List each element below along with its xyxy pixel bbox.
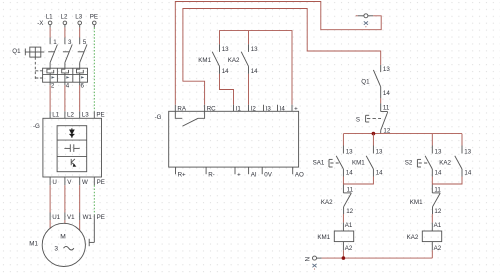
- relay contact RA-RC inside -G: [175, 111, 204, 126]
- -G pin R-: [206, 167, 215, 178]
- svg-text:R+: R+: [178, 171, 186, 178]
- wire supply to RA: [175, 2, 381, 105]
- svg-text:6: 6: [81, 83, 85, 90]
- -G pin I1: [234, 105, 242, 113]
- svg-text:Q1: Q1: [12, 48, 21, 55]
- svg-text:3: 3: [54, 246, 58, 253]
- wire N rail: [322, 257, 433, 259]
- wire 6 to -G L3: [79, 85, 81, 111]
- -G pin L2: [65, 111, 75, 118]
- wire rail to KM1 contact: [372, 134, 374, 146]
- contact KA2 13-14 aux: [228, 44, 258, 75]
- terminal -X2:N: [305, 256, 322, 261]
- wire L1 to breaker: [49, 28, 51, 38]
- motor pin W1: [80, 213, 93, 222]
- svg-text:W1: W1: [83, 214, 93, 221]
- svg-text:SA1: SA1: [313, 160, 325, 167]
- wire U to motor: [49, 185, 51, 212]
- svg-text:KM1: KM1: [410, 199, 423, 206]
- svg-text:AO: AO: [295, 171, 304, 178]
- -G pin I4: [278, 105, 286, 113]
- wire KA2 aux to I2: [248, 74, 250, 105]
- wire V1 into motor: [64, 220, 66, 224]
- svg-text:12: 12: [434, 208, 441, 215]
- svg-text:R-: R-: [208, 171, 215, 178]
- svg-text:KA2: KA2: [439, 160, 451, 167]
- svg-text:-G: -G: [33, 123, 40, 130]
- svg-text:W: W: [82, 179, 88, 186]
- -G pin plus top: [292, 105, 298, 113]
- svg-text:13: 13: [346, 148, 353, 155]
- svg-text:13: 13: [376, 148, 383, 155]
- svg-text:KA2: KA2: [228, 57, 240, 64]
- svg-text:12: 12: [346, 208, 353, 215]
- actuator E of S: [366, 115, 381, 122]
- bypass contact symbol: [64, 144, 79, 152]
- wire KA2 to coil KM1: [342, 214, 344, 223]
- coil KM1 A1-A2: [317, 222, 353, 252]
- svg-text:L3: L3: [82, 111, 89, 118]
- wire W1 into motor: [79, 220, 81, 231]
- svg-text:4: 4: [66, 83, 70, 90]
- wire coil KM1 to N rail: [342, 250, 344, 258]
- svg-text:Q1: Q1: [361, 79, 370, 86]
- svg-text:N: N: [305, 257, 312, 261]
- contact KM1 11-12 interlock: [410, 185, 442, 215]
- svg-text:U: U: [52, 179, 56, 186]
- svg-text:PE: PE: [97, 214, 105, 221]
- svg-text:L2: L2: [67, 111, 74, 118]
- motor pin V1: [65, 213, 75, 222]
- svg-text:14: 14: [251, 68, 258, 75]
- magnetic element pole 2: [65, 75, 70, 83]
- -G pin I3: [264, 105, 272, 113]
- wire RC to Q1: [183, 9, 381, 105]
- breaker output pins 2 4 6: [50, 82, 84, 89]
- svg-text:RC: RC: [207, 105, 216, 112]
- -G pin L3: [80, 111, 90, 118]
- svg-text:KA2: KA2: [321, 199, 333, 206]
- breaker Q1 handle: [12, 47, 44, 57]
- wire PE green lower: [93, 185, 95, 214]
- wire KM1 to coil KA2: [431, 214, 433, 223]
- breaker Q1 pole 2: [65, 38, 72, 69]
- svg-text:I4: I4: [280, 105, 286, 112]
- magnetic element pole 1: [50, 75, 55, 83]
- svg-text:L2: L2: [61, 14, 68, 21]
- -G pin U: [50, 177, 57, 186]
- svg-text:13: 13: [464, 148, 471, 155]
- thyristor symbol: [69, 128, 74, 138]
- wire Q1 to S: [380, 98, 382, 103]
- breaker Q1 pole 1: [50, 38, 57, 69]
- pushbutton S2 13-14: [405, 146, 442, 177]
- semiconductor control symbol K: [71, 159, 76, 167]
- svg-text:14: 14: [435, 169, 442, 176]
- svg-text:PE: PE: [96, 111, 104, 118]
- breaker Q1 trip block: [43, 68, 88, 82]
- pushbutton SA1 13-14: [313, 146, 354, 177]
- svg-text:KA2: KA2: [407, 234, 419, 241]
- terminal -X:L1: [46, 14, 53, 28]
- svg-text:11: 11: [347, 186, 354, 193]
- soft starter -G power box: [33, 118, 102, 177]
- -G pin RA: [175, 105, 187, 113]
- junction rail KM1 branch: [372, 132, 376, 136]
- motor pin U1: [50, 213, 61, 222]
- wire rail to SA1: [342, 134, 344, 146]
- svg-text:KM1: KM1: [317, 234, 330, 241]
- terminal cross mark bottom: [312, 264, 316, 270]
- svg-text:11: 11: [434, 186, 441, 193]
- wire U1 into motor: [49, 220, 51, 229]
- wire SA1 KM1 join: [343, 177, 373, 185]
- svg-text:13: 13: [435, 148, 442, 155]
- -G pin RC: [205, 105, 217, 113]
- svg-text:M: M: [60, 234, 65, 241]
- breaker Q1 pole 3: [80, 38, 87, 69]
- -G pin 0V: [262, 167, 273, 178]
- wire 24V rail: [220, 31, 293, 105]
- -G pin AO: [293, 167, 304, 178]
- wire 2 to -G L1: [49, 85, 51, 111]
- terminal -X:L2: [61, 14, 68, 28]
- soft starter -G control box: [155, 111, 299, 167]
- -G pin PE top: [94, 111, 104, 118]
- terminal cross mark top: [364, 21, 368, 27]
- wire control rail: [344, 133, 463, 135]
- wire W to motor: [79, 185, 81, 212]
- thermal element pole 1: [47, 68, 54, 74]
- svg-text:A1: A1: [434, 222, 442, 229]
- svg-text:14: 14: [346, 169, 353, 176]
- -G pin PE bottom: [94, 177, 105, 186]
- terminal -X2:1 supply: [356, 14, 373, 18]
- svg-text:14: 14: [464, 169, 471, 176]
- svg-text:U1: U1: [52, 214, 60, 221]
- wire L3 to breaker: [79, 28, 81, 38]
- svg-text:L3: L3: [75, 14, 82, 21]
- svg-text:I3: I3: [266, 105, 272, 112]
- svg-text:L1: L1: [46, 14, 53, 21]
- svg-text:AI: AI: [251, 171, 257, 178]
- contact Q1 13-14 aux: [361, 65, 390, 99]
- svg-text:KM1: KM1: [198, 57, 211, 64]
- svg-text:RA: RA: [177, 105, 186, 112]
- svg-text:-G: -G: [155, 114, 162, 121]
- svg-text:5: 5: [83, 39, 87, 46]
- svg-text:PE: PE: [97, 179, 105, 186]
- svg-text:13: 13: [383, 66, 390, 73]
- svg-text:I1: I1: [236, 105, 242, 112]
- wire S2 KA2 join: [432, 177, 462, 185]
- contact KM1 13-14 aux: [198, 44, 229, 75]
- -G pin W: [80, 177, 88, 186]
- svg-text:PE: PE: [90, 14, 98, 21]
- contact KM1 13-14 seal: [352, 146, 383, 177]
- -G pin plus bottom: [235, 167, 241, 178]
- coil KA2 A1-A2: [407, 222, 442, 252]
- svg-text:I2: I2: [251, 105, 257, 112]
- -G pin L1: [50, 111, 60, 118]
- PE bond to motor frame: [89, 220, 94, 246]
- svg-text:14: 14: [383, 90, 390, 97]
- -G pin I2: [249, 105, 257, 113]
- svg-text:S2: S2: [405, 160, 413, 167]
- breaker Q1 linkage dashes: [34, 57, 36, 81]
- motor pin PE: [94, 214, 105, 221]
- svg-text:A2: A2: [345, 245, 353, 252]
- svg-text:3: 3: [68, 39, 72, 46]
- terminal -X:L3: [75, 14, 82, 28]
- junction N rail KM1 coil: [342, 256, 346, 260]
- magnetic element pole 3: [80, 75, 85, 83]
- svg-text:V1: V1: [67, 214, 75, 221]
- terminal -X:PE: [90, 14, 98, 28]
- actuator E of S2: [417, 159, 427, 167]
- svg-text:A2: A2: [434, 245, 442, 252]
- svg-text:KM1: KM1: [352, 160, 365, 167]
- -G inner symbol box: [57, 126, 87, 172]
- svg-text:+: +: [237, 171, 241, 178]
- svg-text:14: 14: [222, 68, 229, 75]
- svg-text:1: 1: [53, 39, 57, 46]
- wire KA2 branch top: [248, 31, 250, 45]
- actuator E of SA1: [329, 159, 339, 167]
- svg-text:0V: 0V: [264, 171, 272, 178]
- svg-text:A1: A1: [345, 222, 353, 229]
- -G pin R+: [176, 167, 187, 178]
- wire L2 to breaker: [64, 28, 66, 38]
- wire rail to S2: [431, 134, 433, 146]
- -G pin AI: [249, 167, 257, 178]
- svg-text:13: 13: [251, 46, 258, 53]
- svg-text:S: S: [356, 116, 360, 123]
- switch S 11-12 emergency stop: [356, 103, 391, 134]
- svg-text:L1: L1: [52, 111, 59, 118]
- wire rail to KA2 contact: [461, 134, 463, 146]
- motor M1: [29, 223, 85, 266]
- svg-text:13: 13: [222, 46, 229, 53]
- thermal element pole 3: [77, 68, 84, 74]
- contact KA2 13-14 seal: [439, 146, 472, 177]
- wire 4 to -G L2: [64, 85, 66, 111]
- svg-text:-X: -X: [37, 20, 43, 27]
- wire coil KA2 to N rail: [431, 250, 433, 258]
- wire V to motor: [64, 185, 66, 212]
- svg-text:M1: M1: [29, 241, 38, 248]
- wire PE green: [93, 28, 95, 112]
- contact KA2 11-12 interlock: [321, 185, 354, 215]
- svg-text:2: 2: [51, 83, 55, 90]
- svg-text:+: +: [294, 105, 298, 112]
- wire KM1 aux to I1: [220, 74, 234, 105]
- -G pin V: [65, 177, 72, 186]
- thermal element pole 2: [62, 68, 69, 74]
- svg-text:14: 14: [376, 169, 383, 176]
- svg-text:11: 11: [383, 104, 390, 111]
